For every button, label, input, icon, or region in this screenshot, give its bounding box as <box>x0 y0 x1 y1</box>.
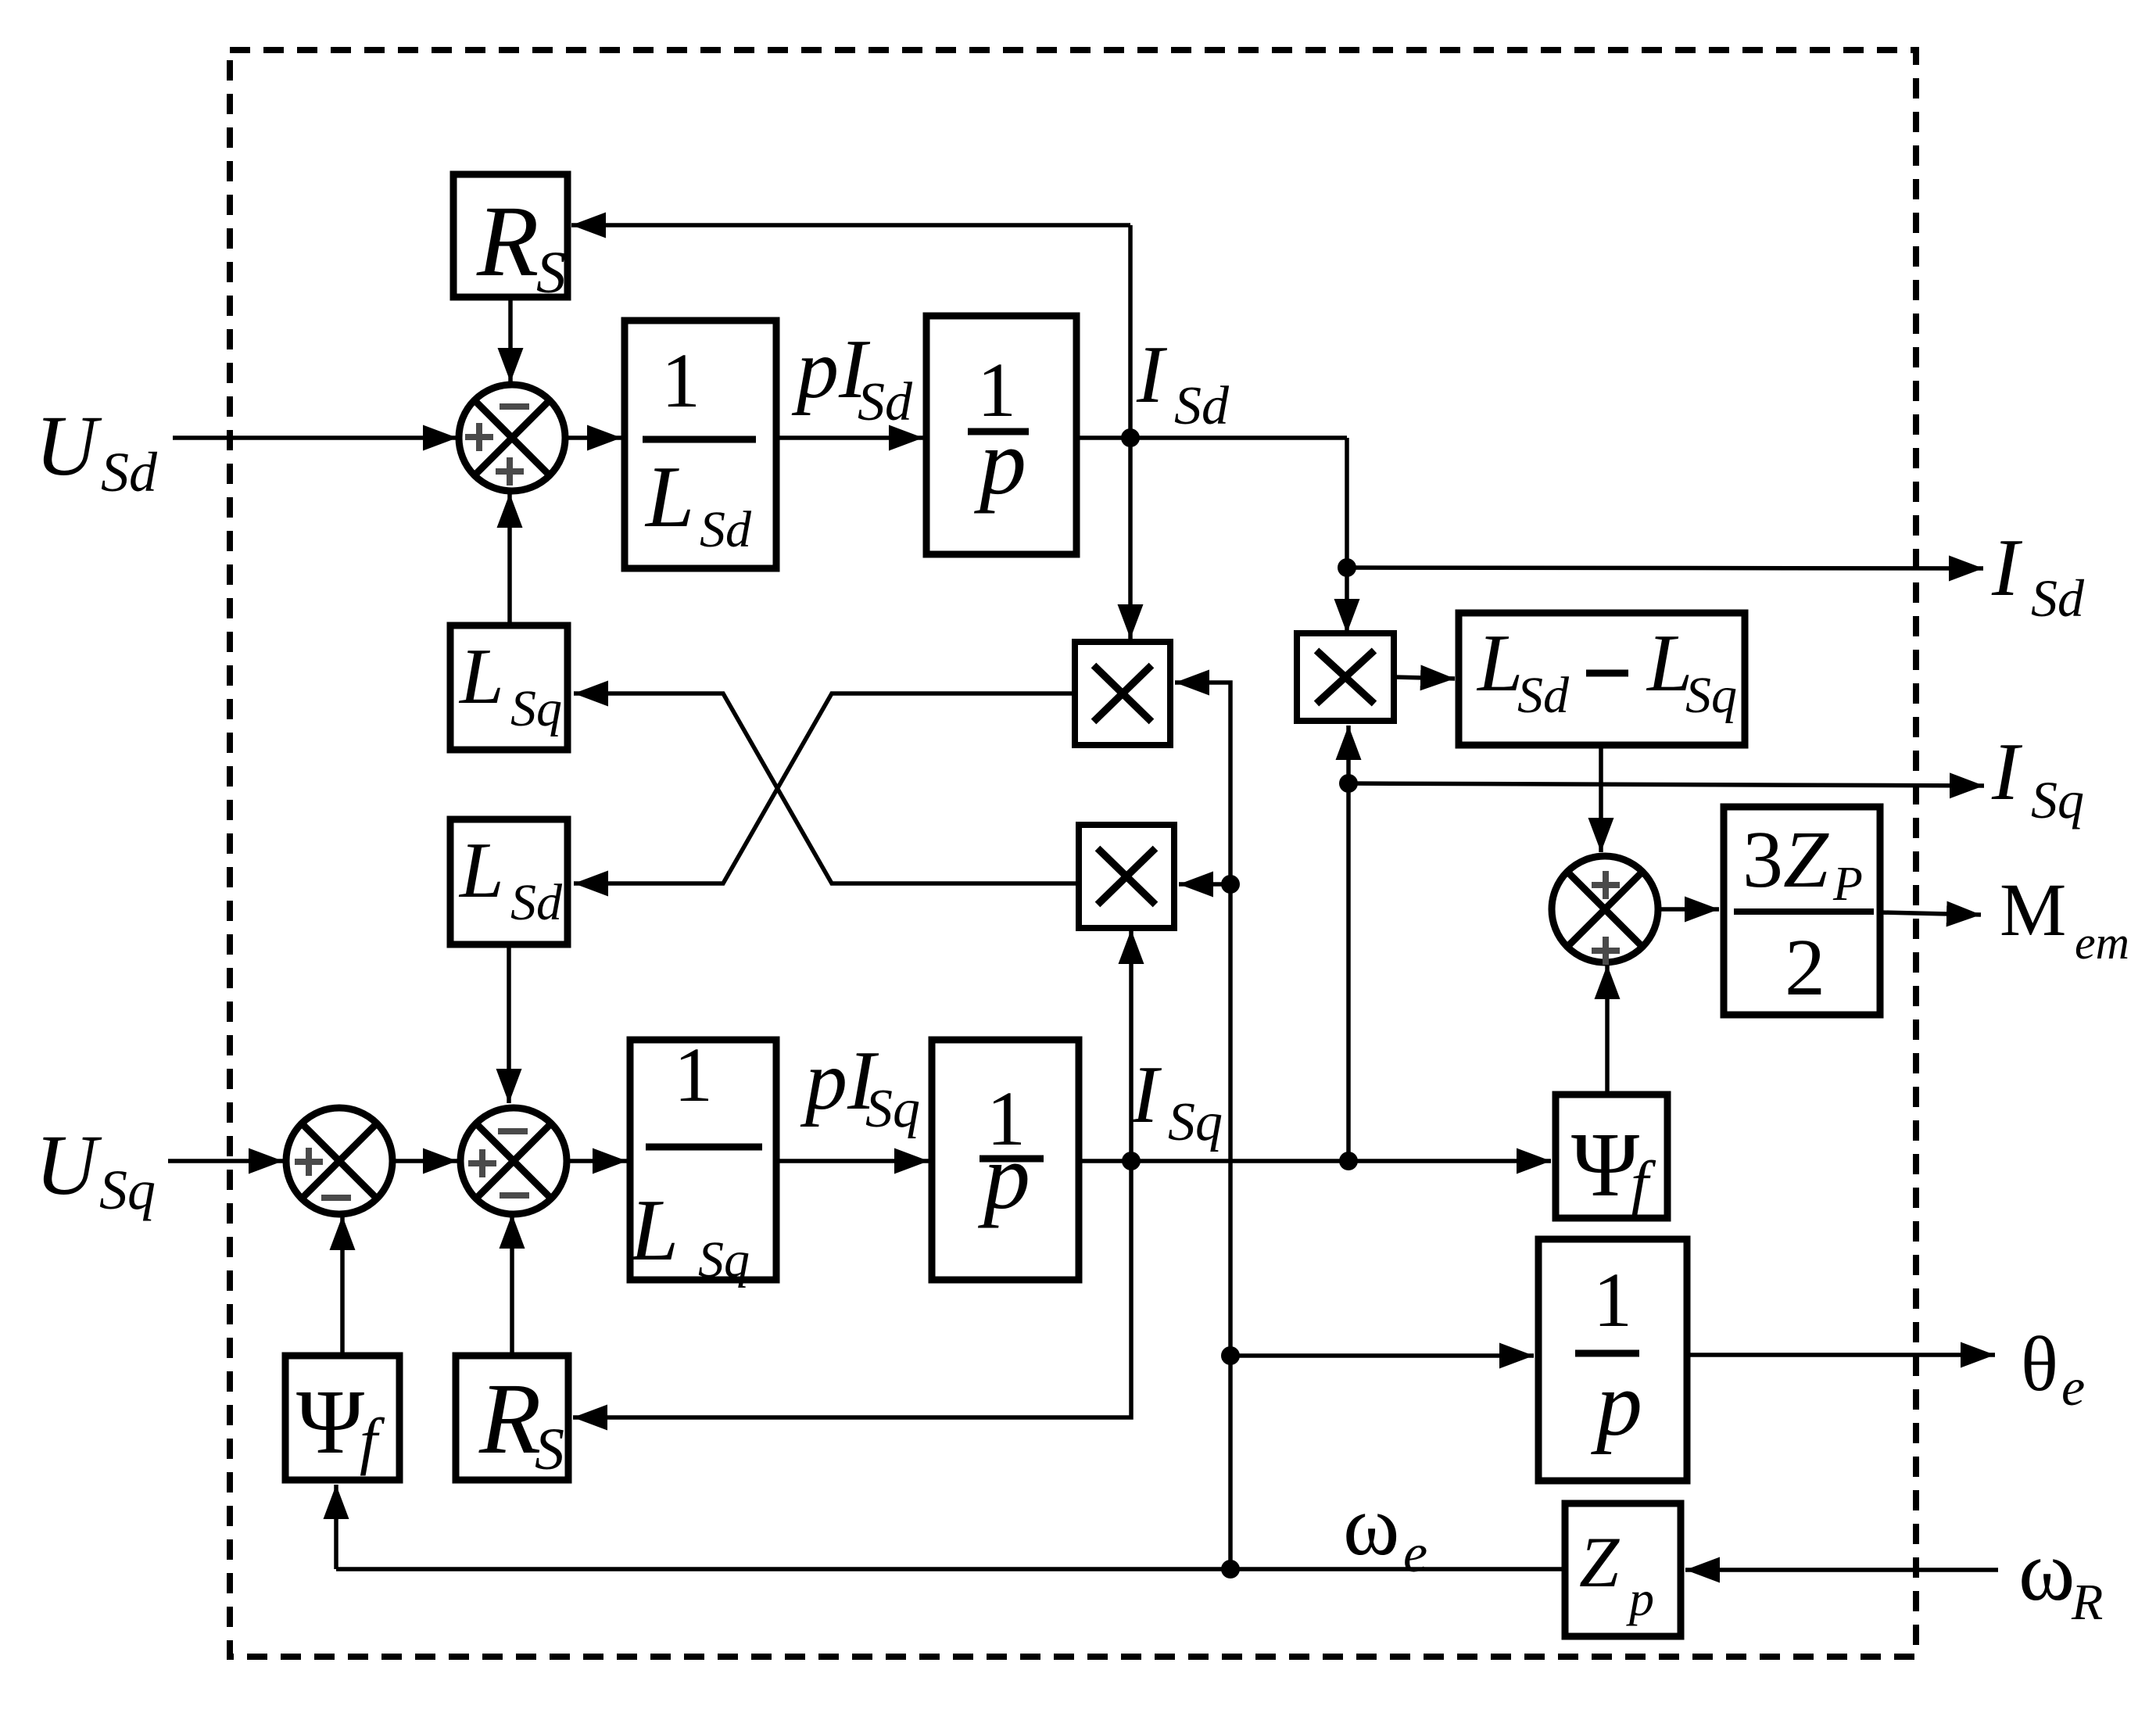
svg-text:p: p <box>977 1124 1030 1228</box>
svg-text:2: 2 <box>1785 923 1825 1012</box>
svg-text:Ψ: Ψ <box>296 1371 364 1473</box>
svg-text:e: e <box>2061 1357 2085 1417</box>
svg-text:1: 1 <box>674 1031 713 1118</box>
svg-text:θ: θ <box>2021 1320 2058 1407</box>
svg-text:Z: Z <box>1783 815 1829 905</box>
svg-text:U: U <box>35 1117 102 1213</box>
svg-text:R: R <box>476 185 539 298</box>
svg-text:P: P <box>1832 858 1863 911</box>
svg-text:M: M <box>2000 868 2066 951</box>
svg-text:L: L <box>458 826 504 915</box>
svg-text:I: I <box>1130 1048 1162 1140</box>
svg-text:Sd: Sd <box>2031 568 2085 628</box>
svg-text:Sq: Sq <box>1685 667 1737 724</box>
svg-text:Z: Z <box>1579 1522 1620 1602</box>
svg-text:p: p <box>1591 1353 1642 1455</box>
svg-text:Sd: Sd <box>1174 376 1230 436</box>
svg-text:L: L <box>629 1182 679 1279</box>
svg-text:3: 3 <box>1742 815 1783 905</box>
svg-text:Sq: Sq <box>510 680 562 737</box>
svg-text:ω: ω <box>2018 1523 2075 1618</box>
svg-text:I: I <box>1136 328 1168 420</box>
svg-text:Sq: Sq <box>698 1231 750 1288</box>
svg-text:S: S <box>535 1417 564 1482</box>
svg-text:Sd: Sd <box>858 372 913 432</box>
svg-text:U: U <box>35 398 102 493</box>
svg-text:Sd: Sd <box>700 501 752 558</box>
svg-text:p: p <box>1626 1571 1654 1626</box>
svg-text:Sq: Sq <box>99 1159 156 1221</box>
svg-text:p: p <box>973 410 1026 514</box>
svg-text:S: S <box>536 240 566 306</box>
svg-text:e: e <box>1403 1524 1427 1584</box>
svg-text:Sd: Sd <box>510 874 563 931</box>
svg-text:1: 1 <box>661 337 700 424</box>
svg-text:L: L <box>644 449 694 546</box>
svg-text:em: em <box>2075 917 2129 969</box>
svg-text:Ψ: Ψ <box>1571 1113 1639 1216</box>
svg-text:1: 1 <box>1593 1256 1632 1343</box>
svg-text:Sq: Sq <box>1168 1092 1223 1152</box>
svg-text:L: L <box>1476 617 1523 708</box>
svg-text:L: L <box>458 632 504 721</box>
svg-text:I: I <box>1991 521 2023 613</box>
svg-text:Sd: Sd <box>1517 667 1570 724</box>
svg-text:ω: ω <box>1343 1478 1399 1573</box>
svg-text:Sd: Sd <box>101 441 158 503</box>
svg-text:Sq: Sq <box>2031 770 2084 830</box>
svg-text:Sq: Sq <box>865 1079 920 1139</box>
svg-text:R: R <box>478 1363 541 1475</box>
svg-text:R: R <box>2071 1574 2103 1631</box>
svg-text:I: I <box>1991 726 2023 817</box>
